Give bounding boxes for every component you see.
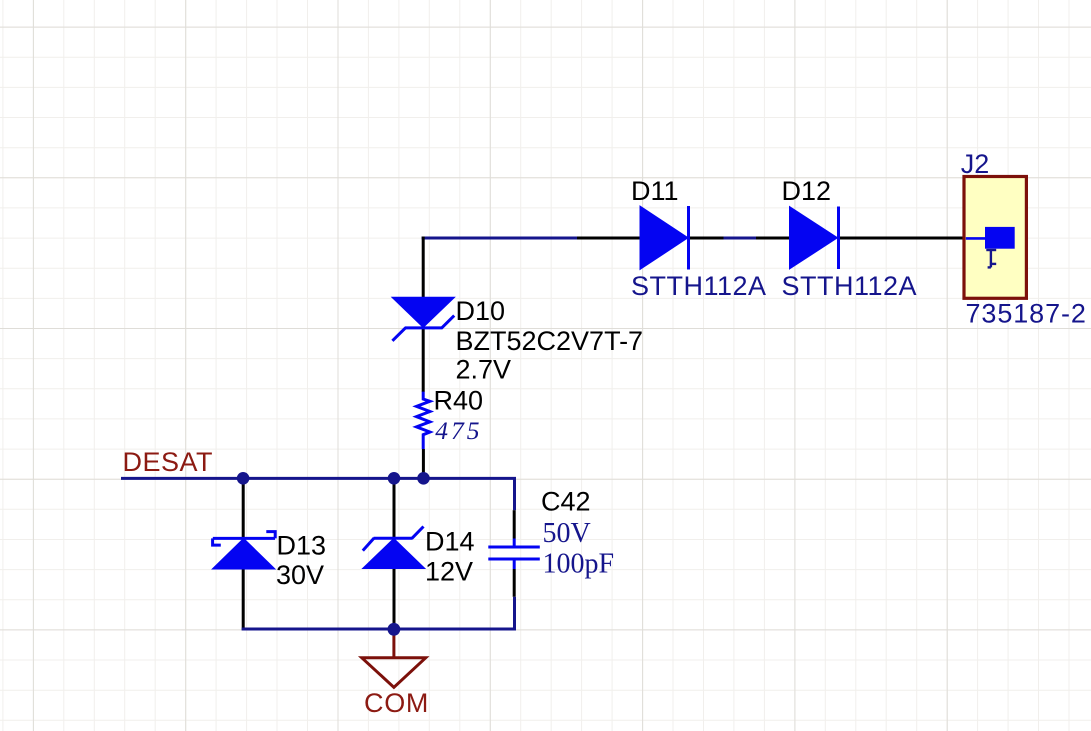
svg-text:STTH112A: STTH112A [631,271,767,301]
ground symbol COM [362,658,426,688]
wire: net to J2, navy segment from vertical corner [422,237,577,240]
wire: D11 cathode to D12 anode (black) [687,237,790,240]
wire: navy overlay segment between D11 and D12 [724,237,757,240]
wire: navy corner down to C42 [513,477,516,510]
svg-text:2.7V: 2.7V [456,355,512,385]
J2 pin 1 graphic [986,250,996,267]
wire: black segment to D11 anode [577,237,641,240]
wire: black vertical through D13 [242,478,245,630]
wire: bottom horizontal navy net [242,628,516,631]
ground stem COM [392,632,395,658]
wire: D12 cathode to connector J2 (black) [837,237,966,240]
svg-text:100pF: 100pF [543,549,615,580]
junction dot DESAT/D14 [388,472,401,485]
svg-text:C42: C42 [541,487,591,517]
svg-text:D10: D10 [456,296,506,326]
resistor R40 [417,392,430,449]
diode D12 [790,207,839,270]
svg-text:12V: 12V [425,557,473,587]
svg-text:DESAT: DESAT [123,447,214,477]
svg-text:D11: D11 [631,176,679,206]
svg-text:R40: R40 [434,386,484,416]
svg-text:50V: 50V [543,518,591,549]
J2 pin pad [985,227,1015,249]
svg-text:STTH112A: STTH112A [782,271,918,301]
zener diode D10 [392,297,455,341]
svg-text:D14: D14 [425,527,475,557]
wire: black vertical through D14 [393,478,396,629]
wire: navy to bottom net [513,597,516,631]
diode D11 [640,206,689,270]
junction dot DESAT/D13 [237,472,250,485]
zener diode D13 [212,532,275,569]
svg-text:D12: D12 [782,176,832,206]
svg-text:COM: COM [364,688,429,718]
svg-text:BZT52C2V7T-7: BZT52C2V7T-7 [456,326,644,356]
junction dot DESAT/R40 [417,472,430,485]
svg-text:735187-2: 735187-2 [966,299,1087,329]
connector J2 body [964,177,1026,299]
svg-text:D13: D13 [277,531,327,561]
capacitor C42 [488,539,540,570]
wire: black below C42 [513,569,516,597]
wire: vertical black from top corner to D10 [422,237,425,301]
wire: vertical black R40 to DESAT net [422,449,425,478]
zener diode D14 [363,527,425,569]
svg-text:J2: J2 [961,149,990,179]
J2 pin lead [966,237,985,240]
wire: vertical black D10 to R40 [422,328,425,392]
svg-text:30V: 30V [276,560,324,590]
wire: black segment to C42 top [513,510,516,538]
wire: DESAT horizontal navy net [121,477,516,480]
svg-text:475: 475 [435,416,482,445]
junction dot bottom/D14 [388,623,401,636]
